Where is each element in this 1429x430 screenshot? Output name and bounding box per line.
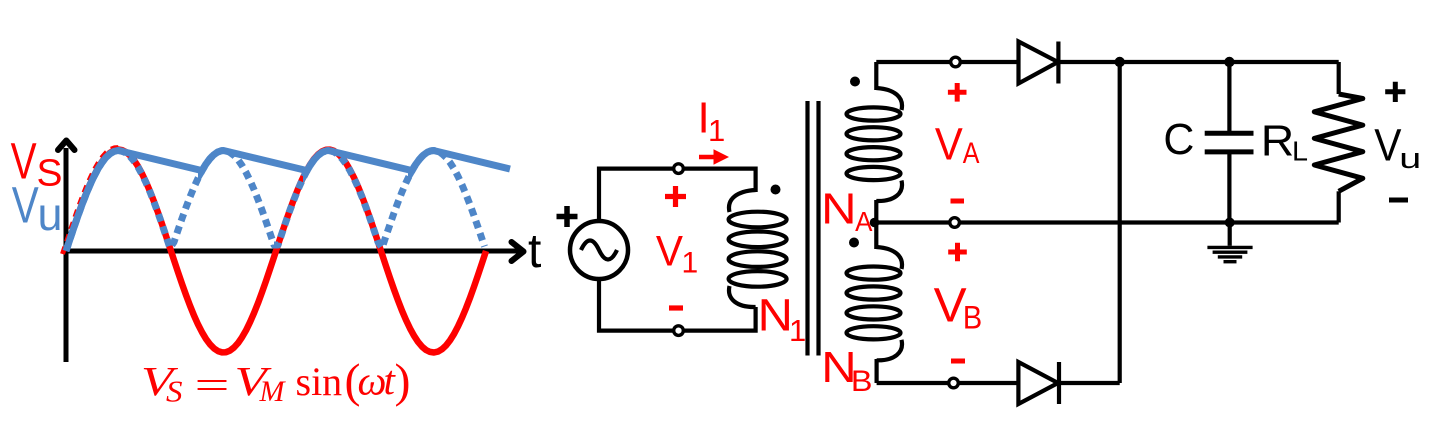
capacitor C bottom lead: [1227, 152, 1231, 223]
wire: D1 to top node: [1058, 60, 1338, 64]
svg-text:A: A: [855, 206, 873, 237]
phase dot primary: [771, 185, 781, 195]
red + of VB: [948, 243, 967, 262]
diode D2 triangle: [1018, 362, 1058, 404]
black + of V_u: [1385, 82, 1405, 102]
red sine offset ghost on rise: [63, 148, 119, 254]
primary coil loop 3: [729, 251, 787, 267]
terminal: primary bottom: [674, 326, 684, 336]
svg-text:R: R: [1261, 117, 1295, 166]
wire: vertical from D1 node down to bottom rail: [1118, 62, 1122, 383]
junction dot: ground node: [1225, 218, 1235, 228]
primary coil loop 4: [729, 271, 787, 287]
secondary A loop 2: [847, 127, 901, 140]
phase dot secondary B: [849, 238, 859, 248]
svg-text:B: B: [851, 365, 873, 398]
formula V_S = V_M sin(wt): [141, 355, 410, 409]
svg-text:C: C: [1163, 115, 1194, 164]
wire: D2 to vertical riser: [1059, 381, 1120, 385]
waveform plot axes and curves: [58, 141, 524, 363]
AC source V1 circle: [570, 221, 628, 279]
wire: top rail from secondary A to diode D1: [876, 60, 1018, 64]
red sine curve V_S: [66, 150, 486, 353]
svg-text:u: u: [1399, 143, 1421, 175]
wire: bottom rail from secondary B to diode D2: [877, 381, 1019, 385]
capacitor C top plate: [1205, 131, 1254, 136]
blue dotted rectified curve: [66, 151, 485, 252]
junction dot: capacitor top node: [1224, 57, 1234, 67]
secondary A loop 1: [847, 107, 901, 120]
primary coil bottom hook: [729, 286, 756, 307]
svg-text:V: V: [12, 177, 39, 234]
svg-text:S: S: [166, 374, 183, 409]
black - of V_u: [1389, 198, 1408, 203]
red - of V1: [669, 305, 683, 310]
red current arrow I1: [699, 155, 716, 160]
junction dot: center tap at transformer: [870, 218, 880, 228]
secondary B bottom hook: [877, 340, 902, 361]
svg-text:1: 1: [789, 313, 806, 348]
secondary B bottom stub: [874, 359, 878, 383]
ground stub: [1228, 223, 1232, 246]
red + of VA: [948, 83, 967, 102]
capacitor C bottom plate: [1205, 149, 1254, 154]
diode D1 cathode bar: [1056, 42, 1060, 84]
diode D1 triangle: [1019, 42, 1059, 84]
transformer core line left: [805, 101, 809, 356]
junction dot: D1 output node: [1115, 57, 1125, 67]
ground bar 2: [1213, 250, 1248, 253]
terminal: V_B bottom: [949, 378, 959, 388]
y axis: [64, 148, 69, 362]
secondary B top hook: [876, 247, 902, 269]
red - of VB: [951, 359, 965, 364]
svg-text:N: N: [821, 184, 856, 233]
svg-text:V: V: [656, 227, 683, 275]
wire: center tap rail: [876, 220, 1338, 224]
svg-text:1: 1: [682, 247, 699, 280]
secondary B top stub: [874, 223, 878, 250]
secondary B loop 4: [847, 326, 901, 339]
resistor RL top stub: [1337, 62, 1341, 94]
terminal: V_A top: [951, 57, 961, 67]
svg-text:u: u: [38, 188, 63, 240]
secondary A loop 4: [847, 167, 901, 180]
svg-text:M: M: [259, 375, 287, 408]
primary coil loop 2: [729, 232, 787, 248]
resistor RL bottom stub: [1337, 191, 1341, 222]
svg-text:V: V: [935, 118, 963, 169]
red + of V1: [665, 186, 686, 207]
svg-text:V: V: [934, 280, 967, 333]
ground bar 4: [1224, 260, 1237, 263]
y axis arrowhead: [58, 141, 75, 151]
svg-text:=: =: [195, 363, 230, 408]
x axis: [66, 249, 521, 254]
terminal: primary top: [674, 164, 684, 174]
terminal: center tap: [950, 218, 960, 228]
capacitor C top lead: [1227, 62, 1231, 133]
ground bar 1: [1207, 246, 1252, 249]
secondary A top hook: [876, 88, 902, 110]
red - of VA: [951, 199, 965, 204]
secondary A bottom hook: [876, 181, 902, 202]
phase dot secondary A: [850, 77, 860, 87]
wire: source bottom to primary bottom: [599, 278, 756, 331]
secondary B loop 2: [847, 286, 901, 299]
svg-text:B: B: [963, 299, 982, 335]
blue solid smoothed output curve V_u: [66, 151, 510, 252]
resistor RL zigzag: [1314, 94, 1363, 191]
transformer core line right: [816, 101, 820, 356]
primary coil loop 1: [729, 212, 787, 228]
primary coil N1 top hook: [729, 190, 756, 212]
secondary A bottom stub to center tap: [874, 200, 878, 223]
svg-text:L: L: [1292, 135, 1308, 166]
diode D2 cathode bar: [1057, 362, 1061, 404]
svg-text:): ): [395, 355, 411, 408]
AC source sine symbol: [581, 241, 617, 260]
black + of source: [557, 206, 578, 227]
secondary B loop 3: [847, 306, 901, 319]
x axis arrowhead: [512, 242, 524, 261]
svg-text:A: A: [963, 137, 980, 170]
svg-text:ω: ω: [358, 358, 387, 404]
secondary A loop 3: [847, 147, 901, 160]
svg-text:N: N: [758, 290, 793, 341]
svg-text:V: V: [1374, 120, 1401, 171]
svg-text:1: 1: [708, 113, 725, 148]
secondary B loop 1: [847, 267, 901, 280]
svg-text:t: t: [528, 225, 541, 278]
secondary A top stub: [874, 62, 878, 90]
wire: source top to primary top: [599, 169, 756, 222]
ground bar 3: [1218, 255, 1242, 258]
svg-text:sin: sin: [296, 359, 343, 404]
